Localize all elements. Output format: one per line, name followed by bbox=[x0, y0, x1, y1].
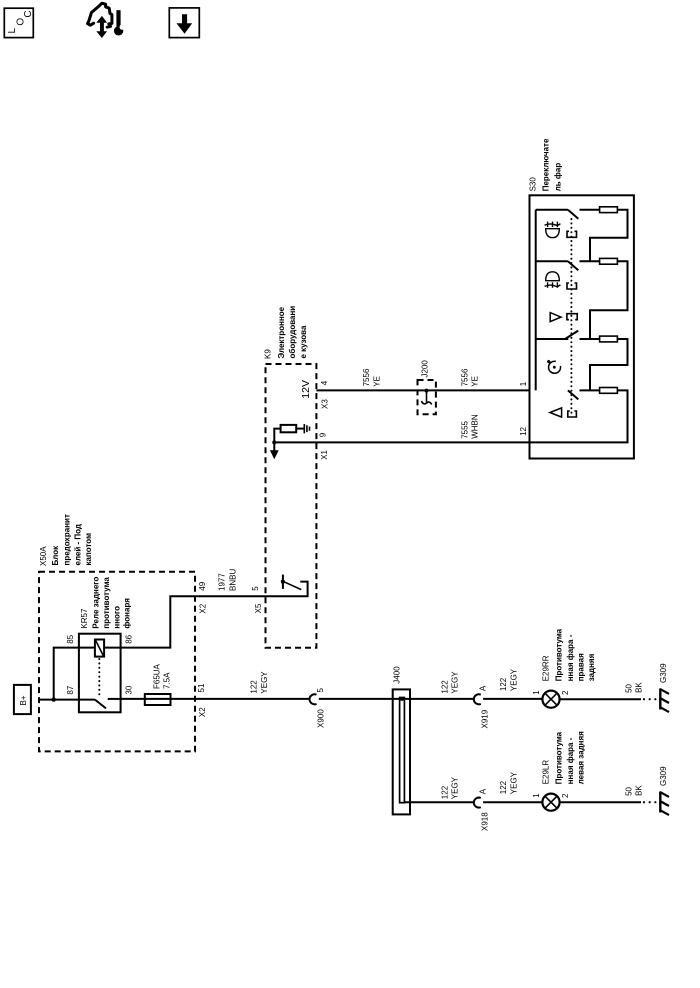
svg-text:7.5A: 7.5A bbox=[163, 672, 172, 689]
svg-text:K9: K9 bbox=[264, 349, 273, 359]
svg-text:2: 2 bbox=[561, 793, 570, 798]
relay coil wire right bbox=[104, 647, 121, 649]
svg-text:51: 51 bbox=[197, 683, 206, 692]
relay switch wire 30 bbox=[108, 698, 121, 700]
svg-text:е кузова: е кузова bbox=[299, 325, 308, 358]
svg-text:X2: X2 bbox=[199, 603, 208, 613]
svg-text:85: 85 bbox=[66, 634, 75, 643]
svg-text:X919: X919 bbox=[480, 709, 489, 728]
svg-text:4: 4 bbox=[320, 380, 329, 385]
svg-text:Переключате: Переключате bbox=[541, 138, 550, 191]
wire X900 to J400 bbox=[319, 698, 402, 700]
K9 internal resistor bbox=[281, 425, 297, 432]
J400 splice pack bbox=[393, 689, 410, 814]
svg-text:2: 2 bbox=[561, 690, 570, 695]
svg-text:49: 49 bbox=[198, 581, 207, 590]
svg-text:9: 9 bbox=[319, 432, 328, 437]
wire lamp E29LR to ground bbox=[560, 801, 641, 803]
relay switch wire 87 bbox=[79, 699, 95, 701]
wire J400 to X918 bbox=[404, 801, 473, 803]
S30 position 4 output wire bbox=[580, 338, 600, 340]
junction dot at B+ branch bbox=[52, 697, 56, 701]
S30 position 4 blade bbox=[565, 331, 579, 340]
svg-text:фонаря: фонаря bbox=[123, 598, 132, 629]
svg-text:50: 50 bbox=[625, 683, 634, 692]
S30 position 2 output wire bbox=[580, 260, 600, 262]
svg-text:YE: YE bbox=[471, 376, 480, 387]
S30 position 5 detent bracket bbox=[568, 411, 577, 417]
icon arrow box bbox=[169, 8, 199, 38]
svg-text:G309: G309 bbox=[659, 766, 668, 786]
svg-text:G309: G309 bbox=[659, 663, 668, 683]
svg-text:E29LR: E29LR bbox=[542, 760, 551, 785]
wire relay 30 to fuse to X900 bbox=[121, 698, 310, 700]
wire J400 to X919 bbox=[404, 698, 473, 700]
S30 position 1 output wire bbox=[580, 209, 600, 211]
J200 junction dot bbox=[425, 389, 429, 393]
svg-text:J200: J200 bbox=[421, 360, 430, 378]
K9 internal wire resistor to ground bbox=[296, 428, 304, 430]
svg-text:X2: X2 bbox=[198, 707, 207, 717]
svg-text:1: 1 bbox=[532, 690, 541, 695]
svg-text:KR57: KR57 bbox=[80, 608, 89, 629]
svg-text:A: A bbox=[479, 788, 488, 794]
J200 wire through bbox=[418, 389, 437, 391]
S30 off icon triangle bbox=[550, 408, 562, 417]
wire X918 to lamp E29LR bbox=[483, 801, 542, 803]
relay switch blade bbox=[95, 700, 106, 709]
relay coil wire left bbox=[79, 647, 95, 649]
svg-text:Противотума: Противотума bbox=[555, 731, 564, 784]
wire lamp E29RR to ground bbox=[560, 698, 641, 700]
svg-text:правая: правая bbox=[577, 653, 586, 681]
svg-text:YEGY: YEGY bbox=[450, 671, 459, 694]
K9 driver arrow bbox=[273, 442, 275, 451]
svg-text:12V: 12V bbox=[300, 380, 312, 399]
svg-text:YEGY: YEGY bbox=[450, 776, 459, 799]
svg-text:5: 5 bbox=[316, 688, 325, 693]
wire 7556 YE from J200 to S30 bbox=[436, 389, 530, 391]
S30 mechanical coupling dotted line bbox=[570, 219, 572, 413]
svg-text:YEGY: YEGY bbox=[510, 668, 519, 691]
resistor R2 in S30 bbox=[600, 258, 618, 264]
svg-text:O: O bbox=[15, 18, 26, 26]
svg-text:WHBN: WHBN bbox=[471, 414, 480, 439]
wire R1 to ladder bbox=[590, 210, 628, 262]
svg-text:нная фара -: нная фара - bbox=[566, 737, 575, 784]
ground G309 bottom bbox=[659, 792, 661, 813]
svg-text:предохранит: предохранит bbox=[62, 514, 71, 565]
fuse F65UA bbox=[145, 694, 171, 705]
svg-text:1: 1 bbox=[519, 381, 528, 386]
connector X918 bbox=[474, 798, 481, 808]
svg-text:X1: X1 bbox=[320, 449, 329, 459]
K9 internal junction dot bbox=[272, 440, 276, 444]
svg-text:S30: S30 bbox=[529, 177, 538, 192]
K9 internal switch post bbox=[282, 575, 284, 589]
svg-text:противотума: противотума bbox=[102, 577, 111, 629]
B+ terminal box bbox=[14, 685, 31, 714]
svg-text:Реле заднего: Реле заднего bbox=[91, 576, 100, 628]
wire R3 to ladder bbox=[590, 339, 628, 390]
wire 7555 WHBN from K9 X1-9 to S30 pin 12 bbox=[316, 441, 529, 443]
svg-text:X918: X918 bbox=[480, 812, 489, 831]
J200 splice dashed box bbox=[418, 380, 436, 414]
svg-text:YE: YE bbox=[372, 376, 381, 387]
J200 splice symbol bbox=[421, 391, 431, 405]
svg-text:122: 122 bbox=[250, 680, 259, 694]
resistor R3 in S30 bbox=[600, 336, 618, 342]
resistor R4 in S30 bbox=[600, 388, 618, 394]
icon LOC box bbox=[4, 8, 34, 37]
wire R2 to ladder bbox=[590, 261, 628, 339]
svg-text:YEGY: YEGY bbox=[260, 671, 269, 694]
svg-text:L: L bbox=[7, 28, 18, 34]
svg-text:Блок: Блок bbox=[51, 545, 60, 566]
svg-text:X900: X900 bbox=[316, 709, 325, 728]
svg-text:BK: BK bbox=[635, 682, 644, 693]
svg-text:левая задняя: левая задняя bbox=[577, 731, 586, 784]
S30 front fog icon bbox=[545, 272, 561, 288]
S30 position 1 detent bracket bbox=[567, 231, 577, 237]
svg-text:нная фара -: нная фара - bbox=[566, 634, 575, 681]
svg-text:J400: J400 bbox=[392, 666, 401, 684]
svg-text:87: 87 bbox=[66, 685, 75, 694]
lamp E29RR bbox=[542, 691, 559, 708]
S30 headlamp switch box bbox=[530, 195, 634, 458]
svg-text:X5: X5 bbox=[254, 603, 263, 613]
S30 position 2 blade bbox=[568, 261, 578, 270]
svg-text:YEGY: YEGY bbox=[510, 771, 519, 794]
K9 body control module dashed box bbox=[266, 364, 317, 648]
svg-text:A: A bbox=[479, 685, 488, 691]
S30 position 1 input wire bbox=[536, 209, 568, 211]
svg-text:X50A: X50A bbox=[39, 546, 48, 566]
svg-text:7556: 7556 bbox=[460, 368, 469, 386]
svg-text:Электронное: Электронное bbox=[277, 306, 286, 358]
svg-text:122: 122 bbox=[499, 677, 508, 691]
svg-text:50: 50 bbox=[625, 786, 634, 795]
svg-text:оборудовани: оборудовани bbox=[288, 306, 297, 359]
S30 common rail bbox=[535, 210, 537, 391]
S30 position 2 input wire bbox=[536, 260, 568, 262]
svg-text:нного: нного bbox=[112, 606, 121, 629]
svg-text:1: 1 bbox=[532, 793, 541, 798]
S30 position 5 output wire bbox=[580, 389, 600, 391]
K9 internal switch wire from X5 bbox=[266, 582, 308, 597]
svg-text:F65UA: F65UA bbox=[153, 663, 162, 689]
svg-text:E29RR: E29RR bbox=[542, 655, 551, 681]
svg-text:B+: B+ bbox=[19, 695, 28, 705]
svg-text:7556: 7556 bbox=[362, 368, 371, 386]
svg-text:12: 12 bbox=[519, 426, 528, 435]
S30 position 1 blade bbox=[568, 210, 578, 219]
svg-text:BK: BK bbox=[635, 785, 644, 796]
S30 position 2 detent bracket bbox=[567, 283, 577, 289]
connector X919 bbox=[474, 694, 481, 704]
svg-text:C: C bbox=[23, 10, 34, 17]
wire branch to relay 85 bbox=[54, 648, 79, 700]
K9 internal wire to resistor bbox=[274, 429, 280, 443]
svg-text:122: 122 bbox=[440, 785, 449, 799]
wire B+ to relay 87 bbox=[39, 699, 79, 701]
S30 position 4 input wire bbox=[536, 338, 569, 340]
X50A fuse block dashed box bbox=[39, 572, 195, 752]
connector X900 bbox=[310, 694, 317, 704]
relay coil bbox=[95, 640, 104, 657]
wire 7556 YE from K9 X3-4 to J200 bbox=[316, 389, 417, 391]
svg-text:1977: 1977 bbox=[218, 573, 227, 591]
wire R4 to pin 12 bbox=[530, 390, 628, 442]
relay KR57 box bbox=[79, 634, 121, 713]
icon vehicle with arrow and wrench bbox=[88, 3, 125, 38]
lamp E29LR bbox=[542, 794, 559, 811]
relay coupling dotted line bbox=[98, 659, 100, 697]
svg-text:122: 122 bbox=[499, 780, 508, 794]
svg-text:X3: X3 bbox=[321, 399, 330, 409]
svg-text:7555: 7555 bbox=[460, 420, 469, 438]
svg-text:BNBU: BNBU bbox=[229, 569, 238, 591]
S30 parking lamp icon triangle bbox=[550, 313, 561, 322]
S30 auto light icon bbox=[547, 360, 561, 373]
resistor R1 in S30 bbox=[600, 207, 618, 213]
ground G309 top bbox=[659, 689, 661, 710]
svg-text:122: 122 bbox=[440, 680, 449, 694]
svg-text:86: 86 bbox=[125, 634, 134, 643]
K9 internal switch blade bbox=[284, 582, 301, 590]
svg-text:елей - Под: елей - Под bbox=[73, 524, 82, 566]
S30 position 5 blade bbox=[568, 390, 578, 399]
K9 internal ground symbol bbox=[304, 424, 309, 433]
S30 position 3 detent bracket bbox=[567, 314, 577, 320]
K9 internal X1 wire bbox=[274, 441, 316, 443]
S30 rear fog icon bbox=[545, 222, 561, 238]
wire 1977 BNBU relay 86 to K9 X5-5 bbox=[121, 596, 266, 647]
svg-text:Противотума: Противотума bbox=[555, 628, 564, 681]
svg-text:5: 5 bbox=[251, 586, 260, 591]
svg-text:задняя: задняя bbox=[587, 653, 596, 681]
svg-text:ль фар: ль фар bbox=[553, 163, 562, 192]
svg-text:30: 30 bbox=[125, 685, 134, 694]
wire X919 to lamp E29RR bbox=[483, 698, 542, 700]
svg-text:капотом: капотом bbox=[84, 533, 93, 566]
